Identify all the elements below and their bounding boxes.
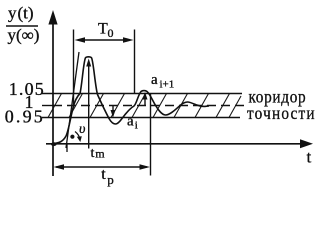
svg-text:i+1: i+1 [160,79,175,91]
svg-text:(t): (t) [18,4,34,23]
svg-text:p: p [107,172,114,187]
svg-text:0: 0 [108,26,114,40]
svg-text:t: t [91,146,95,161]
svg-text:a: a [127,114,134,130]
svg-text:t: t [101,166,106,183]
svg-text:T: T [98,21,108,38]
svg-text:y(∞): y(∞) [8,26,40,45]
svg-text:t: t [307,148,312,167]
svg-text:a: a [151,72,158,88]
svg-text:0.95: 0.95 [5,107,45,127]
svg-text:i: i [135,120,138,132]
svg-text:y: y [8,4,17,23]
svg-text:υ: υ [79,122,85,137]
svg-text:точности: точности [247,103,316,123]
svg-text:m: m [95,147,105,161]
